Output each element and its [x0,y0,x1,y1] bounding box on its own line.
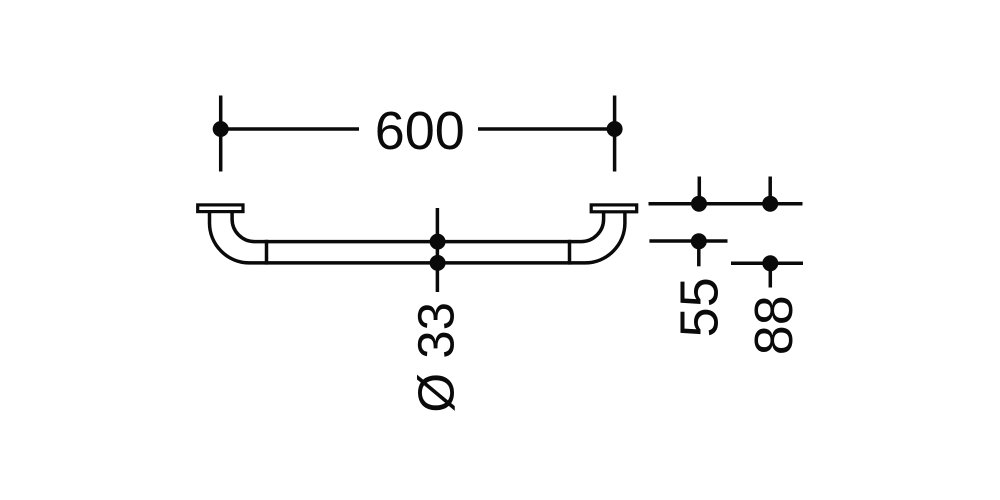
dimension 600: right line segment [478,127,615,131]
wall line: tick 55 [698,177,702,205]
svg-text:Ø 33: Ø 33 [408,302,465,413]
dimension 600: right extension tick [613,96,617,172]
dimension 55: line [649,239,727,243]
svg-text:88: 88 [744,295,804,355]
diameter 33: center extension line [436,208,440,292]
dimension 88: tick [769,263,773,287]
label 88 [744,295,804,355]
dimension 55: tick [697,241,701,266]
dimension 600: left extension tick [219,96,223,172]
grab bar: left wall flange [198,205,243,212]
grab bar: left joint tick [265,240,269,265]
svg-text:600: 600 [375,101,465,161]
diameter 33: upper dot [430,234,446,250]
grab bar: right wall flange [591,205,637,212]
grab bar: tube outer contour [210,213,625,263]
grab bar: tube inner contour [232,213,603,242]
label diameter 33 [408,302,465,413]
wall line: dot 55 [691,196,707,212]
wall line: tick 88 [768,177,772,205]
grab bar: right joint tick [568,240,572,265]
dimension 600: right terminator dot [607,121,623,137]
dimension 55: dot [691,233,707,249]
label 600 [375,101,465,161]
dimension 600: left line segment [221,127,359,131]
wall reference line top right [649,202,803,206]
dimension 88: dot [762,255,778,271]
dimension 600: left terminator dot [213,121,229,137]
wall line: dot 88 [762,196,778,212]
diameter 33: lower dot [430,255,446,271]
label 55 [669,277,729,337]
dimension 88: line [731,262,803,266]
svg-text:55: 55 [669,277,729,337]
